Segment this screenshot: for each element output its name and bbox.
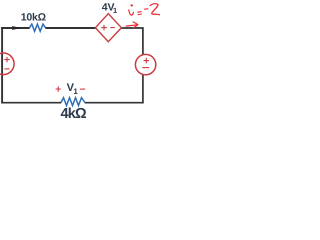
svg-text:4kΩ: 4kΩ — [61, 106, 88, 120]
wire bottom segment left — [1, 102, 61, 104]
svg-text:10kΩ: 10kΩ — [21, 12, 46, 24]
wire top-right segment with corner down to right source — [121, 28, 143, 56]
dependent source U1 diamond 4V1 — [95, 14, 121, 42]
wire top-left segment — [1, 27, 30, 29]
handwritten annotation minus sign — [145, 8, 148, 10]
wire top-middle segment — [45, 27, 96, 29]
wire right-lower segment — [142, 74, 144, 103]
label minus sign of + V1 - above R2 — [80, 88, 85, 90]
handwritten current arrow shaft — [126, 25, 137, 26]
minus sign in right source — [142, 67, 149, 69]
resistor R1 10kΩ zigzag — [30, 24, 46, 31]
resistor R2 4kΩ zigzag — [61, 98, 85, 106]
wire left vertical segment — [1, 27, 3, 103]
handwritten current arrow head — [133, 22, 138, 28]
handwritten annotation i dot — [131, 4, 133, 6]
minus sign in left source — [4, 68, 9, 70]
label plus sign of + V1 - above R2 — [56, 86, 61, 91]
plus sign in right source — [144, 58, 149, 63]
handwritten annotation i body — [129, 10, 134, 15]
plus sign in left source — [4, 57, 9, 62]
voltage source left circle — [0, 53, 14, 75]
handwritten annotation equals sign — [138, 12, 142, 15]
current direction arrow on top wire — [12, 26, 21, 30]
voltage source right circle — [135, 54, 155, 74]
svg-text:1: 1 — [73, 87, 78, 96]
wire bottom segment right — [85, 102, 144, 104]
plus sign inside diamond — [101, 25, 106, 30]
minus sign inside diamond — [110, 27, 115, 29]
handwritten annotation digit 2 — [150, 4, 160, 15]
svg-text:1: 1 — [113, 6, 117, 15]
